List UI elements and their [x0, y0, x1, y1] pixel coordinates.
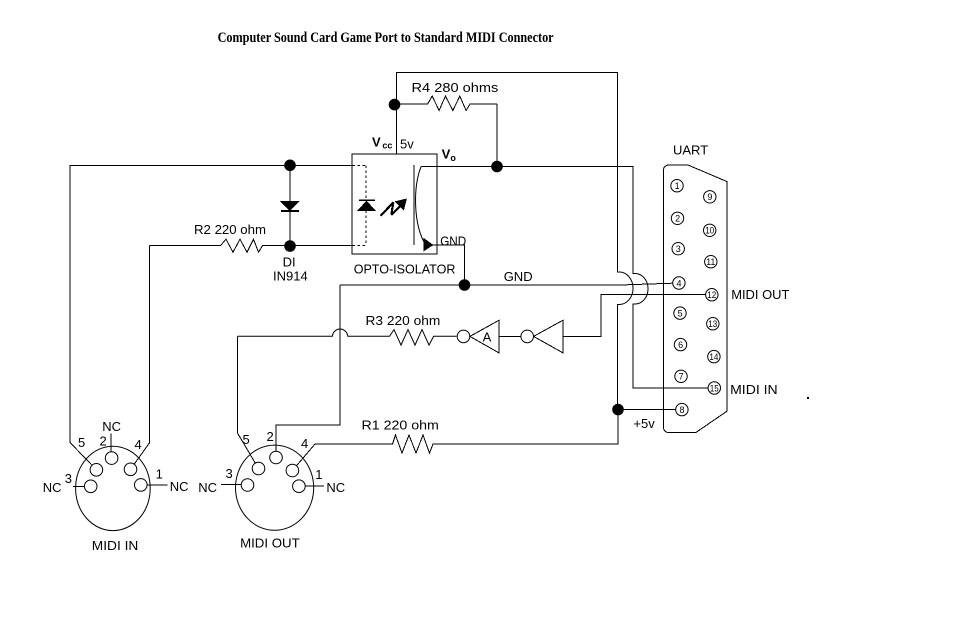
stray dot	[807, 397, 809, 399]
node junction dot top of D1	[284, 160, 296, 172]
node junction dot Vo	[491, 161, 503, 173]
pin 4	[673, 277, 685, 289]
pin 15	[708, 382, 720, 394]
node junction dot R4/Vcc	[389, 99, 401, 111]
svg-text:11: 11	[706, 257, 715, 267]
svg-text:8: 8	[680, 405, 685, 415]
svg-text:o: o	[450, 153, 456, 163]
svg-text:12: 12	[707, 290, 716, 300]
svg-text:UART: UART	[673, 143, 708, 158]
svg-text:R4 280 ohms: R4 280 ohms	[412, 80, 499, 95]
node junction dot +5v	[612, 404, 624, 416]
wire +5v to UART pin8	[618, 409, 676, 411]
node junction dot bottom of D1	[284, 240, 296, 252]
MIDI IN DIN pin 2	[105, 452, 118, 465]
wire left rail from MIDI IN pin5 up and across to opto	[70, 165, 352, 470]
svg-text:GND: GND	[504, 269, 533, 284]
svg-text:9: 9	[707, 192, 712, 202]
svg-text:3: 3	[676, 244, 681, 254]
svg-text:5: 5	[78, 435, 85, 450]
wire Vcc stub	[396, 104, 398, 154]
MIDI IN DIN connector body	[76, 446, 151, 530]
svg-text:13: 13	[708, 319, 717, 329]
svg-text:3: 3	[65, 471, 72, 486]
pin 6	[674, 338, 686, 350]
wire Vo to UART pin15 with hop	[421, 167, 708, 389]
svg-text:IN914: IN914	[273, 269, 308, 284]
svg-text:+5v: +5v	[633, 416, 655, 431]
inverter A bubble	[457, 330, 470, 343]
svg-text:10: 10	[705, 226, 714, 236]
pin 10	[704, 224, 716, 236]
opto emitter arrow	[424, 239, 433, 251]
MIDI OUT DIN pin 2	[270, 451, 283, 464]
pin 12	[706, 289, 718, 301]
pin 3	[672, 243, 684, 255]
wire D1 vertical	[289, 165, 291, 246]
MIDI OUT DIN connector body	[236, 445, 314, 530]
pin 2	[671, 212, 683, 224]
opto phototransistor collector-emitter curve	[416, 167, 426, 246]
svg-text:MIDI OUT: MIDI OUT	[240, 536, 300, 551]
svg-text:A: A	[483, 330, 492, 345]
svg-text:MIDI IN: MIDI IN	[730, 382, 778, 397]
pin 1	[671, 180, 683, 192]
wire R3 left leg down to MIDI OUT DIN pin5	[238, 336, 259, 468]
UART connector DB15 outline	[663, 165, 726, 433]
svg-text:cc: cc	[382, 140, 392, 150]
svg-text:1: 1	[315, 467, 322, 482]
wire GND line to UART pin4	[340, 283, 673, 285]
svg-text:R1 220 ohm: R1 220 ohm	[362, 417, 439, 432]
svg-text:1: 1	[156, 467, 163, 482]
svg-text:V: V	[442, 146, 451, 161]
svg-text:OPTO-ISOLATOR: OPTO-ISOLATOR	[354, 262, 456, 277]
MIDI IN pin2 NC stub	[110, 434, 112, 459]
wire between inverters	[499, 335, 521, 337]
opto phototransistor base bar	[413, 165, 415, 245]
MIDI OUT pin3 NC stub	[221, 484, 248, 486]
svg-text:NC: NC	[326, 480, 345, 495]
pin 5	[674, 307, 686, 319]
wire R2 left leg down to MIDI OUT DIN pin4	[131, 246, 150, 470]
MIDI OUT DIN pin 3	[241, 479, 254, 492]
wire R4 right leg down to Vo	[496, 104, 498, 167]
pin 13	[707, 318, 719, 330]
svg-text:2: 2	[267, 429, 274, 444]
svg-text:6: 6	[678, 340, 683, 350]
svg-text:NC: NC	[43, 480, 62, 495]
inverter 2 bubble	[521, 330, 534, 343]
wire opto GND stub	[432, 245, 465, 285]
svg-text:NC: NC	[198, 480, 217, 495]
svg-text:MIDI OUT: MIDI OUT	[731, 287, 789, 302]
svg-text:4: 4	[301, 436, 308, 451]
MIDI IN DIN pin 1	[135, 479, 148, 492]
pin 7	[675, 370, 687, 382]
opto light arrows	[381, 202, 401, 216]
svg-text:NC: NC	[170, 479, 189, 494]
svg-text:MIDI IN: MIDI IN	[92, 538, 139, 553]
resistor R2	[149, 239, 352, 252]
svg-text:2: 2	[675, 214, 680, 224]
svg-text:4: 4	[677, 278, 682, 288]
svg-text:4: 4	[135, 437, 142, 452]
svg-text:7: 7	[679, 372, 684, 382]
MIDI OUT DIN pin 4	[286, 464, 299, 477]
MIDI IN pin3 NC stub	[73, 485, 91, 487]
svg-text:GND: GND	[440, 233, 466, 248]
svg-text:R3 220 ohm: R3 220 ohm	[366, 313, 441, 328]
pin 11	[705, 256, 717, 268]
svg-text:14: 14	[709, 352, 718, 362]
svg-text:15: 15	[710, 383, 719, 393]
inverter 2 triangle	[534, 320, 563, 353]
pin 14	[708, 350, 720, 362]
MIDI IN DIN pin 4	[124, 463, 137, 476]
svg-text:Computer Sound Card Game Port: Computer Sound Card Game Port to Standar…	[218, 30, 554, 46]
inverter A triangle	[470, 320, 499, 353]
wire top +5v rail with hop over GND and MIDI OUT wires	[397, 73, 634, 410]
svg-text:R2 220 ohm: R2 220 ohm	[194, 222, 266, 237]
opto-isolator U1 box	[352, 154, 437, 254]
wire inverter 2 to UART pin12	[563, 295, 706, 337]
svg-text:NC: NC	[102, 419, 121, 434]
pin 8	[676, 403, 688, 415]
svg-text:5: 5	[243, 432, 250, 447]
MIDI OUT DIN pin 5	[252, 462, 265, 475]
pin 9	[704, 191, 716, 203]
resistor R1 from MIDI OUT DIN pin4	[292, 410, 618, 471]
MIDI OUT DIN pin 1	[293, 480, 306, 493]
resistor R3 with hop over GND vertical	[238, 329, 457, 345]
svg-text:5v: 5v	[400, 136, 414, 151]
svg-text:DI: DI	[283, 255, 296, 270]
svg-text:3: 3	[226, 466, 233, 481]
MIDI IN DIN pin 3	[84, 480, 97, 493]
resistor R4	[395, 96, 497, 110]
opto dashed LED cell	[353, 165, 367, 245]
diode D1	[281, 202, 298, 211]
wire GND down to MIDI OUT DIN pin2	[276, 285, 340, 458]
svg-text:1: 1	[675, 181, 680, 191]
svg-text:V: V	[372, 134, 381, 149]
MIDI OUT pin1 NC stub	[299, 485, 324, 487]
opto LED diode	[359, 199, 375, 201]
svg-text:5: 5	[678, 308, 683, 318]
node junction dot GND	[459, 279, 471, 291]
svg-text:2: 2	[100, 434, 107, 449]
MIDI IN DIN pin 5	[90, 464, 103, 477]
MIDI IN pin1 NC stub	[141, 484, 168, 486]
